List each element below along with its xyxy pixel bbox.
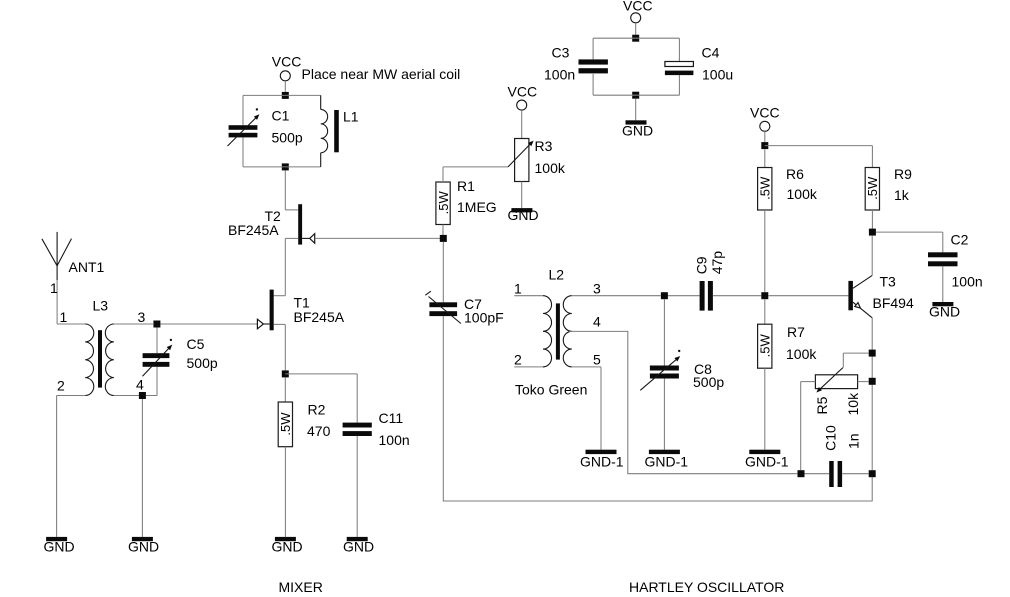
svg-text:L1: L1 [343, 109, 359, 125]
svg-text:C9: C9 [694, 256, 710, 274]
svg-text:VCC: VCC [508, 84, 538, 100]
svg-text:500p: 500p [272, 130, 303, 146]
svg-text:Toko Green: Toko Green [515, 382, 587, 398]
svg-text:Place near MW aerial coil: Place near MW aerial coil [302, 66, 461, 82]
svg-text:GND: GND [272, 538, 303, 554]
svg-text:C5: C5 [187, 336, 205, 352]
svg-text:GND: GND [128, 538, 159, 554]
svg-text:4: 4 [593, 314, 601, 330]
svg-text:R9: R9 [894, 166, 912, 182]
svg-text:.5W: .5W [758, 334, 773, 358]
svg-text:3: 3 [593, 281, 601, 297]
svg-text:4: 4 [136, 377, 144, 393]
svg-text:100k: 100k [786, 346, 817, 362]
svg-text:ANT1: ANT1 [69, 259, 105, 275]
svg-text:R2: R2 [308, 402, 326, 418]
svg-text:C3: C3 [552, 45, 570, 61]
svg-text:R3: R3 [535, 138, 553, 154]
svg-text:C4: C4 [702, 45, 720, 61]
svg-text:C1: C1 [272, 108, 290, 124]
svg-text:C11: C11 [379, 410, 404, 426]
svg-text:GND: GND [343, 538, 374, 554]
svg-text:.5W: .5W [278, 412, 293, 436]
svg-text:BF245A: BF245A [228, 222, 279, 238]
svg-text:100n: 100n [379, 432, 410, 448]
svg-text:2: 2 [57, 378, 65, 394]
svg-text:VCC: VCC [623, 0, 653, 14]
svg-text:L2: L2 [549, 267, 565, 283]
svg-text:1: 1 [60, 309, 68, 325]
svg-text:C10: C10 [823, 425, 839, 451]
svg-text:1: 1 [50, 280, 58, 296]
svg-text:5: 5 [593, 352, 601, 368]
svg-text:1n: 1n [846, 433, 862, 449]
svg-text:R5: R5 [814, 396, 830, 414]
svg-text:.5W: .5W [436, 191, 451, 215]
svg-text:500p: 500p [693, 374, 724, 390]
svg-text:R7: R7 [787, 324, 805, 340]
svg-text:GND-1: GND-1 [645, 453, 689, 469]
svg-text:.5W: .5W [758, 176, 773, 200]
svg-text:1k: 1k [894, 187, 910, 203]
svg-text:BF245A: BF245A [294, 309, 345, 325]
svg-text:HARTLEY OSCILLATOR: HARTLEY OSCILLATOR [629, 579, 784, 595]
svg-text:10k: 10k [845, 392, 861, 416]
svg-text:47p: 47p [709, 251, 725, 275]
svg-text:GND: GND [44, 538, 75, 554]
svg-text:2: 2 [514, 352, 522, 368]
svg-text:1MEG: 1MEG [457, 199, 497, 215]
svg-text:GND-1: GND-1 [580, 453, 624, 469]
svg-text:GND: GND [929, 304, 960, 320]
svg-text:MIXER: MIXER [279, 579, 323, 595]
svg-text:100n: 100n [544, 67, 575, 83]
svg-text:100k: 100k [787, 186, 818, 202]
svg-text:VCC: VCC [750, 105, 780, 121]
svg-text:100n: 100n [952, 274, 983, 290]
svg-text:100pF: 100pF [464, 310, 504, 326]
svg-text:GND-1: GND-1 [745, 453, 789, 469]
svg-text:100u: 100u [702, 67, 733, 83]
svg-text:L3: L3 [93, 298, 109, 314]
svg-text:100k: 100k [535, 160, 566, 176]
svg-text:T3: T3 [880, 274, 897, 290]
svg-text:3: 3 [138, 309, 146, 325]
svg-text:VCC: VCC [272, 54, 302, 70]
svg-text:R1: R1 [457, 178, 475, 194]
svg-text:470: 470 [307, 423, 331, 439]
svg-text:GND: GND [622, 123, 653, 139]
svg-text:1: 1 [514, 281, 522, 297]
svg-text:500p: 500p [187, 355, 218, 371]
svg-text:R6: R6 [786, 166, 804, 182]
svg-text:BF494: BF494 [873, 295, 914, 311]
svg-text:GND: GND [508, 207, 539, 223]
svg-text:C2: C2 [951, 232, 969, 248]
svg-text:.5W: .5W [865, 176, 880, 200]
